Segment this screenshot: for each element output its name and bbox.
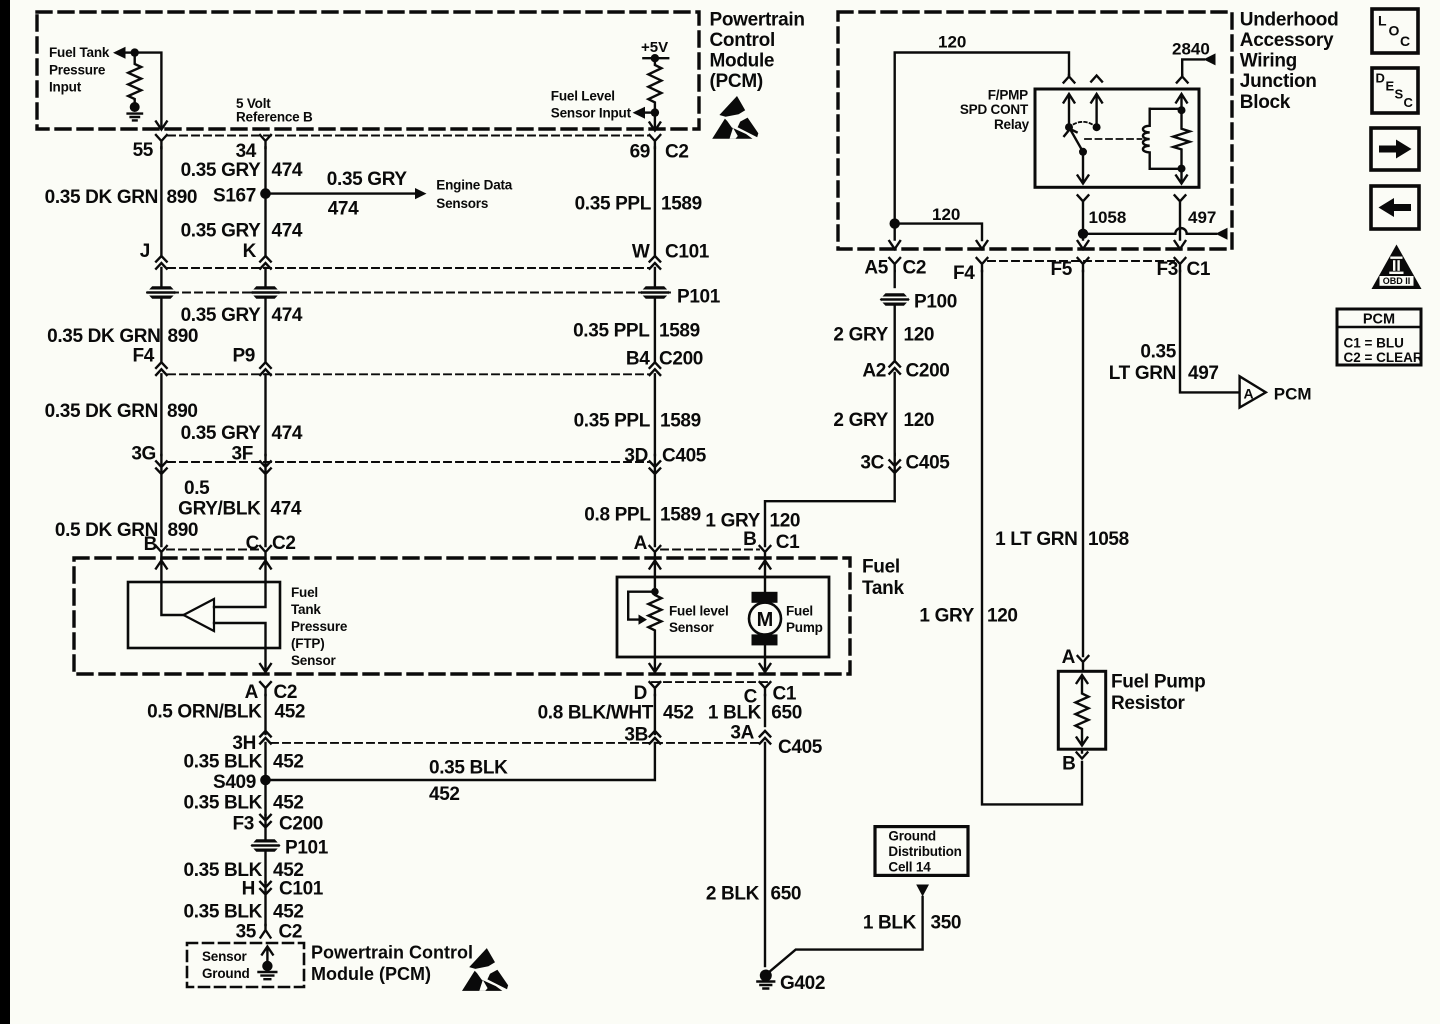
connector C2 dashed line at tank left: [167, 549, 260, 551]
label 3A C405: [730, 723, 822, 759]
svg-text:69: 69: [630, 142, 650, 163]
label 1 BLK 650: [708, 703, 802, 724]
svg-text:SPD CONT: SPD CONT: [960, 102, 1029, 117]
+5V rail: [643, 57, 668, 59]
svg-text:C200: C200: [906, 361, 950, 382]
PCM module dashed box (top left): [37, 12, 699, 129]
svg-text:3B: 3B: [624, 725, 648, 746]
svg-text:C101: C101: [665, 242, 710, 263]
svg-text:474: 474: [271, 499, 302, 520]
svg-text:Module (PCM): Module (PCM): [311, 964, 431, 984]
ESD logo bottom PCM: [462, 948, 508, 991]
svg-text:C405: C405: [662, 446, 707, 467]
svg-text:F/PMP: F/PMP: [988, 87, 1028, 102]
svg-text:Tank: Tank: [291, 602, 321, 617]
resistor fuel level sensor: [648, 592, 661, 657]
svg-text:120: 120: [932, 205, 960, 224]
svg-text:Accessory: Accessory: [1240, 30, 1334, 51]
svg-text:B: B: [144, 534, 157, 555]
svg-text:1589: 1589: [661, 194, 702, 215]
connector half unused pin (above box): [1091, 76, 1102, 82]
label A (resistor pin): [1062, 647, 1076, 668]
svg-text:Module: Module: [710, 51, 775, 72]
svg-text:P101: P101: [677, 287, 721, 308]
resistor fuel pump (arrowed): [1076, 675, 1089, 746]
svg-text:Sensor: Sensor: [291, 653, 337, 668]
svg-text:1 LT GRN: 1 LT GRN: [995, 529, 1077, 550]
label 2 BLK 650: [706, 884, 801, 905]
FTP buffer triangle: [184, 599, 215, 631]
connector C1 dashed line at tank right: [661, 549, 759, 551]
connector row dashed line below junction block: [988, 260, 1174, 262]
arrow 497 off-page (solid left-tip): [1216, 228, 1228, 240]
svg-text:1589: 1589: [660, 411, 701, 432]
label F3 C200: [233, 814, 324, 835]
wire 3C to pump B/C1: [765, 501, 895, 546]
connector Y resistor B: [1077, 749, 1088, 758]
wire 120 top feed: [895, 53, 1069, 224]
svg-text:F3: F3: [1157, 259, 1178, 280]
label 5 Volt Reference B: [236, 96, 313, 125]
wire sender D out with down arrowhead: [650, 657, 661, 672]
svg-text:O: O: [1389, 23, 1400, 39]
svg-text:3G: 3G: [131, 444, 156, 465]
svg-text:Reference B: Reference B: [236, 110, 313, 125]
label 1058: [1089, 208, 1127, 227]
svg-text:120: 120: [904, 325, 935, 346]
label 3H: [232, 733, 256, 754]
svg-text:H: H: [242, 879, 255, 900]
label 34: [236, 141, 257, 162]
wire S409 down: [264, 780, 266, 815]
sensor ground arrow up: [262, 947, 273, 967]
label 0.8 BLK/WHT 452: [538, 703, 694, 724]
label C C2 (tank pin): [246, 533, 296, 554]
connector half below relay pin 85: [1175, 195, 1186, 228]
connector 3B halves (up): [650, 731, 661, 744]
fuel pump motor circle: [749, 603, 781, 635]
connector H C101 halves (down): [260, 882, 271, 925]
svg-text:F5: F5: [1051, 259, 1073, 280]
connector C101 col3 halves: [650, 256, 661, 287]
wire 890 segment 2: [160, 298, 162, 361]
svg-text:A: A: [1062, 647, 1076, 668]
relay switch common node: [1065, 123, 1073, 131]
fuel pump motor top terminal: [752, 592, 778, 603]
svg-text:0.8 BLK/WHT: 0.8 BLK/WHT: [538, 703, 654, 724]
svg-text:Cell 14: Cell 14: [888, 860, 931, 875]
svg-text:C1 = BLU: C1 = BLU: [1344, 336, 1404, 351]
label K: [243, 241, 257, 262]
svg-text:0.35 GRY: 0.35 GRY: [327, 169, 408, 190]
wire 120 branch to F4: [895, 224, 982, 240]
svg-text:Input: Input: [49, 80, 82, 95]
relay coil top lead: [1150, 108, 1182, 110]
arrow 2840 (solid left-tip): [1204, 53, 1216, 65]
svg-text:C1: C1: [773, 684, 797, 705]
label Fuel Pump Resistor: [1111, 672, 1205, 715]
svg-text:1 BLK: 1 BLK: [708, 703, 762, 724]
connector half at relay pin 86: [1177, 75, 1188, 83]
svg-text:0.35 PPL: 0.35 PPL: [575, 194, 652, 215]
connector 3H halves (up): [260, 731, 271, 775]
label 69 / C2: [630, 142, 689, 163]
wire P100 to A2: [894, 305, 896, 361]
fuel level sensor wiper circuit: [628, 577, 655, 620]
connector C405 col1 halves (down): [156, 455, 167, 546]
relay arm to pin 87 arrow down: [1078, 152, 1089, 184]
node resistor top: [1178, 106, 1186, 114]
svg-text:Wiring: Wiring: [1240, 51, 1297, 72]
svg-text:55: 55: [133, 140, 154, 161]
label 0.35 GRY 474 (col2 row4): [181, 423, 303, 444]
svg-text:120: 120: [987, 606, 1018, 627]
connector Y pin D: [650, 682, 661, 695]
svg-text:Underhood: Underhood: [1240, 9, 1339, 30]
splice S167 label: [213, 186, 256, 207]
connector 3H/3B/3A dashed line: [271, 742, 763, 744]
label 0.35 LT GRN 497: [1109, 342, 1219, 385]
svg-text:452: 452: [663, 703, 694, 724]
relay nc contact arrow up: [1091, 94, 1102, 127]
svg-text:1058: 1058: [1088, 529, 1129, 550]
label 2 GRY 120 (lower): [833, 410, 934, 431]
connector Y pin 34: [260, 135, 271, 148]
connector half below relay pin 87: [1078, 195, 1089, 234]
svg-text:Tank: Tank: [862, 578, 904, 599]
relay contact dotted arc: [1069, 122, 1097, 127]
wire into pump B with up arrowhead: [760, 559, 771, 577]
svg-text:497: 497: [1188, 363, 1219, 384]
Fuel Tank dashed box: [74, 558, 850, 674]
svg-text:1589: 1589: [659, 321, 700, 342]
label 120 (top feed): [938, 33, 966, 52]
ground symbol FTP: [128, 114, 142, 121]
FTP sensor box: [128, 582, 280, 648]
connector Y tank B(C1): [760, 546, 771, 559]
connector C405 col2 halves (down): [260, 455, 271, 546]
connector C200 col3 halves: [650, 362, 661, 455]
svg-text:452: 452: [275, 702, 306, 723]
resistor fuel level pull-up: [648, 58, 661, 112]
connector C2 dashed line (PCM top row): [168, 135, 650, 137]
svg-text:C2: C2: [279, 922, 303, 943]
label 474 (branch below): [328, 199, 359, 220]
relay linkage dashed line: [1085, 138, 1142, 140]
label 0.35 GRY 474 (col2 row3): [181, 305, 303, 326]
connector half at relay pin 30: [1064, 75, 1075, 83]
svg-text:Fuel: Fuel: [786, 604, 813, 619]
svg-text:(PCM): (PCM): [710, 71, 763, 92]
svg-text:F4: F4: [953, 263, 975, 284]
legend PCM connector colors box: [1337, 309, 1421, 365]
triangle A to PCM: [1240, 376, 1266, 407]
relay coil bottom lead: [1150, 168, 1182, 170]
fuel tank inner box (sender unit): [617, 577, 829, 657]
label J: [140, 241, 150, 262]
svg-text:A5: A5: [864, 258, 888, 279]
fuel pump wire top: [764, 577, 766, 592]
title Powertrain Control Module (PCM): [710, 9, 805, 92]
label 1 LT GRN 1058 (F5 wire): [995, 529, 1129, 550]
label B (resistor pin): [1062, 754, 1075, 775]
arrow Fuel Tank Pressure Input (solid left): [113, 47, 126, 59]
svg-text:1 BLK: 1 BLK: [863, 913, 917, 934]
label 0.35 PPL 1589 (col3 row1): [575, 194, 702, 215]
label 0.35 PPL 1589 (col3 row2): [573, 321, 700, 342]
title Powertrain Control Module (PCM) bottom: [311, 943, 473, 985]
svg-text:D: D: [634, 683, 647, 704]
wire F5 down to resistor A: [1082, 271, 1084, 656]
svg-text:Fuel Tank: Fuel Tank: [49, 45, 110, 60]
label 3G: [131, 444, 156, 465]
label 3C C405: [860, 453, 950, 474]
ground dot FTP: [130, 102, 140, 112]
svg-text:0.5 DK GRN: 0.5 DK GRN: [55, 520, 158, 541]
label P100: [914, 292, 957, 313]
svg-text:0.5 ORN/BLK: 0.5 ORN/BLK: [147, 702, 262, 723]
label F5: [1051, 259, 1073, 280]
connector C200 col2 halves: [260, 362, 271, 455]
svg-text:120: 120: [938, 33, 966, 52]
label A (triangle): [1244, 386, 1254, 402]
svg-text:Powertrain Control: Powertrain Control: [311, 943, 473, 963]
label 0.5 DK GRN 890 (col1 row4): [55, 520, 198, 541]
svg-text:Ground: Ground: [888, 829, 936, 844]
connector 3A halves (up): [760, 731, 771, 966]
label 0.35 DK GRN 890 (col1 row2): [47, 326, 198, 347]
connector A2 C200 halves (up): [889, 361, 900, 455]
node resistor bottom: [1178, 165, 1186, 173]
svg-text:LT GRN: LT GRN: [1109, 363, 1176, 384]
wire FTP out to A/C2 with down arrowhead: [260, 648, 271, 672]
label 497: [1188, 208, 1216, 227]
svg-text:C: C: [1400, 33, 1410, 49]
svg-text:Distribution: Distribution: [888, 844, 961, 859]
connector Y tank C: [260, 546, 271, 559]
wire into sender A with up arrowhead: [650, 559, 661, 577]
svg-text:35: 35: [236, 922, 257, 943]
wire F3 through hop down: [1175, 228, 1186, 249]
label B (tank pin): [144, 534, 157, 555]
connector Y A5: [889, 258, 900, 271]
wire 497 tie with hop: [1083, 228, 1216, 234]
relay switch arm: [1064, 127, 1083, 152]
svg-text:0.35: 0.35: [1140, 342, 1176, 363]
connector Y pin 55: [156, 135, 167, 148]
label Fuel Tank: [862, 557, 904, 600]
svg-text:34: 34: [236, 141, 257, 162]
svg-text:Relay: Relay: [994, 117, 1030, 132]
svg-text:PCM: PCM: [1363, 312, 1395, 328]
FTP internal left wire: [161, 582, 183, 615]
label Fuel Tank Pressure (FTP) Sensor: [291, 585, 348, 668]
svg-text:S409: S409: [213, 772, 256, 793]
svg-text:C2: C2: [274, 682, 298, 703]
svg-text:C2: C2: [665, 142, 689, 163]
connector Y tank B: [156, 546, 167, 559]
grommet P101 col1: [146, 286, 176, 298]
node fuel level sensor top: [651, 588, 659, 596]
svg-text:890: 890: [168, 326, 199, 347]
svg-text:0.35 GRY: 0.35 GRY: [181, 305, 262, 326]
wire D down to 3B: [654, 695, 656, 734]
relay nc contact node: [1093, 123, 1101, 131]
icon arrow right box: [1371, 128, 1419, 170]
wire into FTP C with up arrowhead: [260, 559, 271, 582]
icon DESC box: [1372, 68, 1418, 113]
arrow down into G402 net (solid): [916, 885, 929, 897]
label A C2: [245, 682, 297, 703]
wire 890 segment 1 (col1): [160, 148, 162, 257]
icon LOC box: [1372, 9, 1418, 53]
label 452 (branch below): [429, 784, 460, 805]
wire F4 down to resistor B: [982, 271, 1082, 804]
svg-text:B4: B4: [626, 349, 650, 370]
connector P101 dashed line: [147, 292, 672, 294]
label B C1 (pump pin): [743, 529, 800, 553]
Underhood junction block dashed box: [838, 12, 1232, 249]
relay arm pivot node: [1079, 148, 1087, 156]
svg-text:A: A: [634, 533, 648, 554]
svg-text:Pressure: Pressure: [49, 63, 106, 78]
svg-text:1058: 1058: [1089, 208, 1127, 227]
relay box F/PMP SPD CONT: [1035, 89, 1199, 187]
grommet P101 col3: [640, 286, 670, 298]
wire arrow to node: [644, 111, 655, 113]
svg-text:PCM: PCM: [1274, 385, 1312, 404]
svg-text:Fuel: Fuel: [862, 557, 900, 578]
connector C200 dashed line: [168, 373, 650, 375]
wire FTP input to pin 55: [135, 53, 162, 127]
label 0.35 GRY 474 (col2 row2): [181, 221, 303, 242]
svg-text:1 GRY: 1 GRY: [919, 606, 974, 627]
svg-text:Sensor: Sensor: [669, 620, 715, 635]
label P101: [677, 287, 721, 308]
label P9: [232, 346, 255, 367]
svg-text:J: J: [140, 241, 150, 262]
svg-text:P101: P101: [285, 838, 329, 859]
sensor ground symbol: [259, 972, 277, 979]
label H C101: [242, 879, 324, 900]
label A (tank pin): [634, 533, 648, 554]
node S409: [260, 775, 271, 786]
wire F3 to PCM triangle: [1180, 271, 1239, 392]
svg-text:C101: C101: [279, 879, 324, 900]
wire S409 branch to 3B: [266, 743, 655, 780]
svg-text:2 GRY: 2 GRY: [833, 410, 888, 431]
svg-text:Powertrain: Powertrain: [710, 9, 805, 30]
label 0.5 ORN/BLK 452: [147, 702, 305, 723]
arrowhead down at PCM edge pin 55: [156, 122, 167, 130]
svg-text:E: E: [1386, 79, 1395, 94]
label G402: [780, 973, 825, 994]
title Underhood Accessory Wiring Junction Block: [1240, 9, 1339, 112]
label 0.35 GRY 474 (col2 row1): [181, 160, 303, 181]
svg-text:A: A: [245, 682, 259, 703]
wire S167 branch to engine data sensors: [266, 192, 417, 194]
svg-text:650: 650: [771, 703, 802, 724]
svg-text:350: 350: [931, 913, 962, 934]
svg-text:W: W: [632, 242, 650, 263]
wire C down to 3A: [764, 695, 766, 726]
svg-text:3D: 3D: [624, 446, 648, 467]
svg-text:0.35 GRY: 0.35 GRY: [181, 423, 262, 444]
label 0.35 BLK 452 (row1): [183, 752, 303, 773]
svg-text:Resistor: Resistor: [1111, 693, 1186, 714]
relay pin 85 arrow down: [1176, 169, 1187, 184]
wire A5 down with arrowhead: [889, 224, 900, 249]
svg-text:452: 452: [273, 752, 304, 773]
label Fuel Level Sensor Input: [551, 88, 632, 120]
connector Y tank A: [650, 546, 661, 559]
svg-text:0.35 GRY: 0.35 GRY: [181, 160, 262, 181]
svg-text:0.35 BLK: 0.35 BLK: [183, 793, 262, 814]
svg-text:0.35 DK GRN: 0.35 DK GRN: [47, 326, 160, 347]
connector C200 col1 halves: [156, 362, 167, 455]
arrow Fuel Level Sensor Input (solid left): [633, 107, 645, 119]
svg-text:0.35 BLK: 0.35 BLK: [183, 902, 262, 923]
label 0.35 DK GRN 890 (col1 row1): [45, 187, 198, 208]
wire G402 to ground distribution: [769, 897, 923, 973]
connector C101 col2 halves: [260, 256, 271, 287]
label 55: [133, 140, 154, 161]
resistor FTP input pull-up: [128, 53, 141, 102]
relay internal resistor: [1173, 110, 1189, 168]
svg-text:Ground: Ground: [202, 966, 250, 981]
svg-text:P9: P9: [232, 346, 255, 367]
left page edge black bar: [0, 0, 10, 1024]
svg-text:G402: G402: [780, 973, 825, 994]
label 0.35 DK GRN 890 (col1 row3): [45, 401, 198, 422]
svg-text:C405: C405: [906, 453, 951, 474]
node 120 branch: [890, 218, 900, 228]
label +5V: [641, 39, 668, 56]
label W C101: [632, 242, 710, 263]
svg-text:2840: 2840: [1172, 40, 1210, 59]
svg-text:Fuel Pump: Fuel Pump: [1111, 672, 1205, 693]
icon OBD II triangle: [1372, 245, 1422, 290]
node S167: [260, 188, 271, 199]
svg-text:0.35 BLK: 0.35 BLK: [429, 758, 508, 779]
svg-text:Sensor: Sensor: [202, 949, 248, 964]
connector Y pin A(C2) below FTP: [260, 682, 271, 695]
wire 2840 off-page: [1182, 59, 1204, 75]
wire arrow to node: [125, 51, 135, 53]
label Fuel level Sensor: [669, 604, 729, 636]
svg-text:F4: F4: [133, 346, 155, 367]
Fuel Pump Resistor box: [1058, 671, 1105, 749]
splice S409 label: [213, 772, 256, 793]
label 2840: [1172, 40, 1210, 59]
svg-text:L: L: [1378, 13, 1387, 29]
svg-text:120: 120: [904, 410, 935, 431]
relay pin 86 arrow up: [1176, 94, 1187, 110]
label Sensor Ground: [202, 949, 250, 981]
svg-text:3C: 3C: [860, 453, 884, 474]
label 3D C405: [624, 446, 706, 467]
svg-text:C2 = CLEAR: C2 = CLEAR: [1344, 350, 1423, 365]
node 1058/497 tie: [1078, 229, 1088, 239]
svg-text:Fuel level: Fuel level: [669, 604, 729, 619]
label 0.35 BLK 452 (row4): [183, 902, 303, 923]
svg-text:474: 474: [272, 221, 303, 242]
connector Y F4: [977, 258, 988, 271]
label 1 GRY 120 (pump feed): [705, 511, 800, 532]
label 0.35 GRY (branch above): [327, 169, 408, 190]
svg-text:Pump: Pump: [786, 620, 823, 635]
label Ground Distribution Cell 14: [888, 829, 961, 875]
